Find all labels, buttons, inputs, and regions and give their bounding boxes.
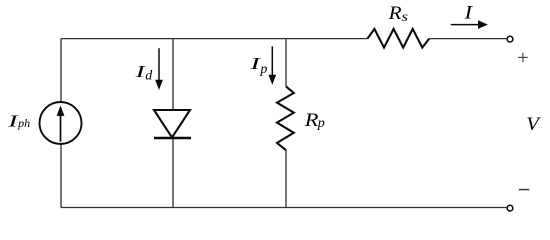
wire top: left node to Rs	[61, 38, 368, 40]
svg-text:R: R	[388, 3, 402, 23]
wire diode branch lower	[172, 138, 174, 208]
terminal - (open circle)	[507, 205, 513, 211]
resistor Rp zigzag	[277, 86, 294, 150]
current source arrow	[57, 106, 65, 142]
label Rs	[388, 3, 409, 24]
wire left vertical below Iph source	[60, 145, 62, 208]
wire bottom	[61, 207, 506, 209]
svg-text:p: p	[317, 116, 325, 131]
label Id	[134, 62, 153, 83]
arrow Ip current	[268, 46, 276, 85]
wire diode branch upper	[172, 39, 174, 110]
svg-text:p: p	[259, 62, 267, 77]
arrow Id current	[155, 48, 163, 90]
svg-text:R: R	[304, 111, 319, 131]
svg-text:ph: ph	[17, 116, 30, 130]
label Iph	[7, 112, 30, 131]
svg-text:d: d	[145, 68, 153, 83]
svg-text:s: s	[402, 9, 409, 24]
arrow I output current	[451, 20, 488, 29]
label Rp	[304, 111, 325, 132]
svg-text:V: V	[526, 114, 542, 135]
label plus	[518, 53, 528, 62]
label Ip	[249, 54, 267, 76]
label minus	[519, 189, 530, 191]
wire Rp branch lower	[285, 150, 287, 207]
diode D bar	[154, 137, 191, 139]
resistor Rs zigzag	[368, 29, 430, 48]
wire Rp branch upper	[285, 39, 287, 87]
wire top: Rs to + terminal	[429, 38, 506, 40]
wire left vertical above Iph source	[60, 39, 62, 102]
current source Iph circle	[40, 102, 82, 144]
diode D triangle	[154, 110, 190, 138]
terminal + (open circle)	[507, 36, 513, 42]
svg-text:I: I	[463, 1, 473, 23]
